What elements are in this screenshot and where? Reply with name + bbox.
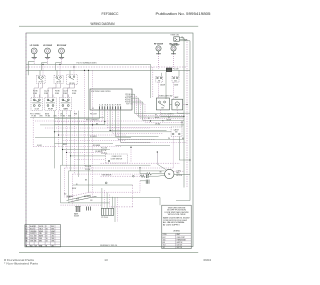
surface unit WZ terminal	[173, 51, 175, 54]
oven lamp box	[172, 99, 183, 110]
wire surface unit WZ drop	[173, 54, 175, 69]
surface unit RF terminal	[158, 51, 160, 54]
svg-text:W/BK: W/BK	[33, 93, 37, 95]
svg-text:BK/W: BK/W	[155, 117, 160, 119]
footer rule	[19, 252, 198, 254]
svg-text:W/BK: W/BK	[63, 93, 67, 95]
svg-text:YB: YB	[46, 238, 48, 240]
svg-text:BB: BB	[35, 241, 37, 243]
svg-text:W/BK: W/BK	[30, 238, 34, 240]
surface unit RR element	[59, 48, 65, 54]
svg-text:1 2 3 4 5 6 7 8 9: 1 2 3 4 5 6 7 8 9	[99, 105, 121, 107]
junction dots	[42, 64, 43, 65]
left dashed wire to frame	[33, 146, 56, 148]
surface switch RR-RF entry stubs	[47, 95, 49, 98]
svg-text:Publication No. 5995419805: Publication No. 5995419805	[156, 12, 211, 16]
svg-text:OVEN DOOR: OVEN DOOR	[112, 156, 123, 158]
svg-text:P22 BK: P22 BK	[125, 94, 131, 96]
svg-text:B/BK: B/BK	[39, 241, 42, 243]
schematic border frame	[26, 33, 193, 247]
svg-text:3000W: 3000W	[74, 216, 80, 218]
svg-text:LR SW: LR SW	[56, 82, 61, 84]
svg-text:P25 RD: P25 RD	[125, 100, 131, 102]
wires lamp to bus	[183, 104, 187, 106]
broil element stub	[87, 207, 91, 211]
lower mesh wires	[61, 164, 151, 166]
svg-text:10-3 R: 10-3 R	[63, 90, 69, 92]
svg-text:MOTOR: MOTOR	[176, 175, 182, 177]
infinite switch LR SW box	[54, 75, 63, 83]
svg-text:WB: WB	[25, 238, 27, 240]
svg-text:09/04: 09/04	[203, 258, 211, 262]
svg-text:BK/W: BK/W	[45, 114, 50, 116]
bus L1 right margin	[183, 38, 185, 188]
svg-text:SWITCH: SWITCH	[177, 247, 183, 249]
limiter switch WZ	[172, 76, 179, 82]
wires right of connector	[114, 197, 116, 222]
long bottom wires	[93, 196, 161, 198]
svg-text:LB: LB	[46, 236, 48, 238]
limiter drops	[158, 82, 160, 98]
infinite switch RR SW box	[67, 75, 78, 85]
row1 to row2 wires	[34, 84, 39, 98]
svg-text:P1-3 OR: P1-3 OR	[85, 166, 92, 168]
wire surface unit LR drop	[47, 59, 49, 65]
svg-text:GRN: GRN	[51, 228, 54, 230]
bottom horizontal wires	[61, 202, 110, 204]
svg-text:RF 2600W: RF 2600W	[154, 44, 163, 46]
svg-text:P3: P3	[155, 115, 157, 117]
diagonal wire pair	[67, 195, 91, 201]
motor lead right	[174, 174, 190, 176]
svg-text:VIOL: VIOL	[30, 236, 33, 238]
svg-text:LF SW: LF SW	[38, 82, 43, 84]
mid-low mesh wire	[73, 184, 133, 186]
notes legend box	[162, 205, 191, 248]
svg-text:P11 2W: P11 2W	[173, 69, 179, 71]
door latch drops	[172, 137, 174, 169]
svg-text:P9 TO CONTROL: P9 TO CONTROL	[86, 119, 99, 121]
surface unit LF terminal	[33, 54, 35, 57]
svg-text:M: M	[168, 173, 170, 176]
svg-text:W/BK: W/BK	[44, 93, 48, 95]
svg-text:W/BK: W/BK	[55, 93, 59, 95]
svg-text:W OVEN: W OVEN	[90, 136, 97, 138]
bus wire upper 2	[26, 66, 187, 68]
EOC bottom wires turn right	[121, 142, 151, 144]
wire light switch drop	[160, 110, 162, 116]
svg-text:RR 1300W: RR 1300W	[57, 45, 66, 47]
svg-text:P8 CONT: P8 CONT	[90, 114, 97, 116]
bus riser right	[150, 64, 152, 98]
svg-text:100W: 100W	[174, 85, 179, 87]
ground strap below terminal block	[171, 43, 180, 45]
oven light switch box	[156, 98, 169, 110]
svg-text:FEF366CC WD 14: FEF366CC WD 14	[100, 245, 117, 247]
dashed return bottom	[111, 206, 133, 208]
svg-text:TOD: TOD	[163, 239, 166, 241]
frame left dashed overlay	[25, 33, 27, 247]
svg-text:WIRING DIAGRAM: WIRING DIAGRAM	[91, 22, 115, 26]
element below motor	[140, 180, 146, 182]
svg-text:GN: GN	[46, 228, 48, 230]
wire surface unit LF drop	[33, 59, 35, 65]
motor winding element	[146, 173, 151, 176]
junction bus 2 right	[168, 70, 169, 71]
electronic oven control box U1	[90, 89, 132, 110]
svg-text:P1-1 BK: P1-1 BK	[101, 148, 108, 150]
svg-text:OVEN LIGHT SW: OVEN LIGHT SW	[158, 96, 172, 98]
svg-text:G/BK: G/BK	[30, 241, 33, 243]
wire color code table	[25, 225, 61, 247]
svg-text:RR-RF: RR-RF	[48, 109, 53, 111]
svg-text:IN OFF POSITION: IN OFF POSITION	[167, 210, 186, 212]
dashed wire door switch	[101, 162, 181, 164]
surface unit LR element	[45, 48, 51, 54]
svg-text:LT: LT	[176, 108, 178, 110]
svg-text:DOOR SWITCHES SHOWN: DOOR SWITCHES SHOWN	[165, 212, 189, 214]
svg-text:FEF366CC: FEF366CC	[102, 12, 120, 16]
wire LR return loop	[42, 63, 48, 71]
svg-text:RF: RF	[158, 80, 160, 82]
wire sensor to motor	[148, 175, 158, 177]
bus wire upper 1	[26, 63, 151, 65]
wire surface unit RR drop	[61, 59, 63, 65]
svg-text:LIGHT SWITCH: LIGHT SWITCH	[111, 159, 123, 161]
wire RR return loop	[56, 63, 62, 71]
bus N right margin	[186, 39, 188, 187]
wire lamp drop	[176, 110, 178, 113]
svg-text:GROUND: GROUND	[171, 45, 180, 47]
svg-text:P1-5 W: P1-5 W	[85, 169, 91, 171]
svg-text:P9 TO SPEED: P9 TO SPEED	[30, 114, 41, 116]
svg-text:LEGEND: LEGEND	[173, 231, 181, 233]
svg-text:GY: GY	[46, 231, 48, 233]
surface switch LF-LR entry stubs	[33, 95, 35, 98]
svg-text:2600W: 2600W	[160, 85, 166, 87]
bus wire upper 3	[26, 69, 190, 71]
door latch switch box	[171, 127, 182, 137]
central wire bundle verticals	[54, 111, 56, 169]
EOC bottom wire bundle	[99, 109, 101, 118]
limiter switch RF	[156, 76, 163, 82]
infinite switch LF SW box	[37, 75, 46, 83]
svg-text:GB: GB	[25, 241, 27, 243]
svg-text:IGNITOR: IGNITOR	[177, 242, 183, 244]
wire LF return loop	[28, 62, 34, 76]
wire to notes area	[159, 197, 161, 205]
svg-text:Y: Y	[35, 228, 36, 230]
surface unit LF element	[31, 48, 37, 54]
sensor node ring	[133, 175, 135, 177]
left leads to motor	[139, 168, 141, 174]
svg-text:OVEN CONT: OVEN CONT	[177, 237, 185, 239]
mesh wires center band	[30, 117, 104, 119]
svg-text:CODE: CODE	[163, 234, 167, 236]
EOC bottom pin row	[99, 106, 101, 109]
EOC bottom wires turn left	[55, 118, 100, 120]
junction door latch	[181, 122, 182, 123]
svg-text:TN: TN	[35, 233, 37, 235]
svg-text:P24 OR: P24 OR	[125, 98, 132, 100]
connector feeder wires	[101, 188, 103, 208]
surface switch RR-RF box	[45, 98, 56, 111]
wire N to right margin	[180, 38, 188, 40]
svg-text:BU: BU	[25, 228, 27, 230]
surface switch WARM box	[60, 98, 72, 111]
svg-text:LF 2100W: LF 2100W	[30, 45, 39, 47]
node ring	[105, 182, 107, 184]
svg-text:RB: RB	[35, 238, 37, 240]
svg-text:MR: MR	[35, 236, 37, 238]
svg-text:BU: BU	[30, 245, 32, 247]
svg-text:BK: BK	[25, 226, 27, 228]
svg-text:LR 1300W: LR 1300W	[43, 45, 52, 47]
svg-text:V: V	[25, 236, 26, 238]
svg-text:R: R	[46, 226, 47, 228]
sensor capacitor bars	[145, 174, 147, 178]
wire surface unit RF drop	[158, 54, 160, 69]
terminal block TB1	[174, 37, 180, 41]
oven door light switch box	[106, 154, 128, 163]
svg-text:* Non-Illustrated Parts: * Non-Illustrated Parts	[4, 261, 39, 265]
svg-text:P1 PLUG: P1 PLUG	[101, 217, 108, 219]
svg-text:O/BK: O/BK	[51, 241, 54, 243]
surface unit RF element	[156, 46, 161, 51]
svg-text:CUTOUT: CUTOUT	[177, 244, 183, 246]
bake element BE1	[76, 207, 80, 213]
svg-text:R/BK: R/BK	[39, 238, 42, 240]
surface switch LF-LR box	[31, 98, 43, 111]
svg-text:13: 13	[104, 258, 108, 262]
limiter body	[166, 68, 171, 72]
door latch switch contacts	[172, 133, 174, 135]
svg-text:RR SW: RR SW	[69, 83, 75, 85]
convection motor M1	[165, 169, 174, 178]
svg-text:L2: L2	[185, 40, 187, 42]
svg-text:P1-2 W: P1-2 W	[101, 150, 107, 152]
svg-text:WHITE: WHITE	[39, 226, 43, 228]
wire L1 to right margin	[180, 37, 185, 39]
motor lead diagonal upper	[157, 164, 166, 170]
svg-text:BK BROIL: BK BROIL	[84, 196, 91, 198]
surface unit RR terminal	[61, 54, 63, 57]
header rule	[19, 25, 198, 27]
connector J1 block	[101, 208, 113, 215]
svg-text:GY: GY	[35, 245, 37, 247]
svg-text:Y/BK: Y/BK	[51, 238, 54, 240]
motor lead left	[140, 173, 146, 175]
svg-text:WZ: WZ	[174, 80, 177, 82]
svg-text:P26 BU: P26 BU	[125, 102, 131, 104]
svg-text:WITH DOOR OPEN: WITH DOOR OPEN	[168, 214, 186, 216]
svg-text:OR RD: OR RD	[155, 123, 161, 125]
svg-text:BR: BR	[35, 231, 37, 233]
svg-text:CONV MOTOR 120V 60HZ: CONV MOTOR 120V 60HZ	[163, 220, 187, 222]
svg-text:P23 W: P23 W	[126, 96, 131, 98]
EOC right wire bundle	[132, 94, 184, 113]
row1 wire stubs	[39, 70, 41, 75]
svg-text:BLUE: BLUE	[30, 228, 34, 230]
svg-text:ELECTRONIC OVEN CONTROL: ELECTRONIC OVEN CONTROL	[91, 91, 111, 93]
svg-text:W/BK: W/BK	[72, 93, 76, 95]
svg-text:10-2 R: 10-2 R	[44, 90, 50, 92]
svg-text:PURP: PURP	[30, 233, 34, 235]
svg-text:RED: RED	[51, 226, 54, 228]
extra mesh wires to right bus	[121, 142, 187, 144]
svg-text:L.BU: L.BU	[51, 236, 54, 238]
vertical feeders bottom	[60, 165, 62, 203]
surface unit LR terminal	[47, 54, 49, 57]
oven sensor wire	[101, 175, 141, 177]
svg-text:PR: PR	[25, 233, 27, 235]
legend table	[162, 232, 191, 234]
svg-text:BRWN: BRWN	[39, 231, 43, 233]
sensor element zigzag	[140, 175, 145, 178]
surface switch WARM entry stubs	[62, 95, 64, 98]
svg-text:CONV.: CONV.	[176, 170, 181, 172]
svg-text:OB: OB	[46, 241, 48, 243]
svg-text:OVEN SENSOR: OVEN SENSOR	[102, 174, 112, 176]
svg-text:EOC: EOC	[163, 237, 166, 239]
svg-text:SWITCHES SHOWN: SWITCHES SHOWN	[168, 207, 186, 209]
bus L2 right margin	[189, 41, 191, 201]
svg-text:P1-4 RD: P1-4 RD	[101, 153, 108, 155]
svg-text:PK: PK	[46, 233, 48, 235]
surface unit WZ element	[171, 46, 176, 51]
svg-text:OR: OR	[25, 231, 27, 233]
door switch dashed drop	[130, 147, 132, 163]
svg-text:POWER CORD: POWER CORD	[171, 35, 180, 37]
svg-text:PINK: PINK	[51, 233, 54, 235]
svg-text:P10 TO SURFACE UNITS: P10 TO SURFACE UNITS	[77, 62, 98, 65]
wire L2 to right margin	[180, 40, 191, 42]
